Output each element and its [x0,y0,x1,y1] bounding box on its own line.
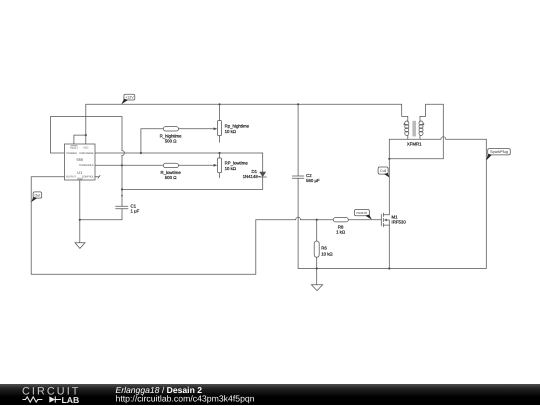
resistor R8 [333,218,348,235]
wire drain riser [388,159,390,215]
svg-text:500 Ω: 500 Ω [165,175,177,180]
svg-text:RESET: RESET [70,147,78,150]
wire output loop [31,177,296,275]
wire R_hightime to wiper [179,128,215,130]
transformer XFMR1 [404,121,425,147]
svg-text:XFMR1: XFMR1 [407,142,422,147]
svg-text:10 kΩ: 10 kΩ [225,129,237,134]
wire RP_lowtime bottom stub [219,173,221,178]
svg-text:10 kΩ: 10 kΩ [321,251,333,256]
svg-text:http://circuitlab.com/c43pm3k4: http://circuitlab.com/c43pm3k4f5pqn [116,393,255,403]
capacitor C1 [116,203,140,213]
svg-text:R6: R6 [321,245,327,250]
wire secondary top path [389,104,443,159]
junction dots [85,134,87,136]
svg-text:DISCHARGE: DISCHARGE [79,152,93,155]
svg-text:1N4148: 1N4148 [243,174,259,179]
wire C2 top lead [297,104,299,176]
op-amp/timer U1 555 [65,144,96,180]
transistor M1 IRF530 [381,213,406,227]
svg-text:U1: U1 [77,170,82,175]
wire Rp_hightime top lead [219,104,221,120]
wire +12V rail [86,104,408,144]
node mos-in flag [354,210,371,220]
wire RP_lowtime top lead [219,153,221,158]
wire xfmr bottom rail [389,139,441,159]
svg-text:LAB: LAB [62,395,80,405]
svg-text:THRESHOLD: THRESHOLD [79,164,94,167]
wire hop over discharge [122,151,124,156]
svg-text:Out: Out [35,193,41,197]
svg-text:TRIGGER: TRIGGER [66,152,77,155]
svg-text:500 Ω: 500 Ω [165,138,177,143]
wire C2 bottom / ground rail / spark riser [298,139,486,268]
resistor R_hightime [160,127,183,144]
wire R_hightime left lead [141,129,163,153]
wire D1 return [122,177,263,189]
svg-text:GND: GND [77,177,83,180]
svg-text:mos-in: mos-in [357,211,368,215]
svg-text:CONTROL: CONTROL [82,176,94,179]
wire 555 GND [79,180,81,243]
node Coil flag [378,167,389,178]
wire hop over secondary riser [441,137,446,139]
wire R8 to gate [348,219,381,221]
ground (R6) [311,285,322,291]
resistor R6 [314,241,333,257]
wire R6 bottom lead [316,257,318,285]
resistor R_lowtime [160,163,181,180]
pin CONTROL stub [95,175,100,178]
capacitor C2 [292,173,320,183]
svg-text:560 μF: 560 μF [306,178,320,183]
potentiometer RP_lowtime [218,158,249,173]
wire xfmr bottom rail right [446,138,487,140]
node SparkPlug flag [486,149,510,161]
svg-text:SparkPlug: SparkPlug [490,149,508,154]
ground (555) [75,243,85,249]
wire to R8 [301,219,334,221]
svg-text:IRF530: IRF530 [392,219,407,224]
wire hop over C2 column [296,217,301,219]
wire primary bottom [407,135,409,139]
svg-text:1 μF: 1 μF [131,208,140,213]
wire secondary bottom [419,135,421,139]
node Out flag [31,192,41,202]
svg-text:OUTPUT: OUTPUT [66,176,76,179]
wire RESET to VCC jumper [74,135,86,144]
svg-text:VCC: VCC [83,147,88,150]
wire threshold row [95,164,163,166]
potentiometer Rp_hightime [218,121,250,136]
wire vertical to C1 [121,155,123,206]
svg-text:10 kΩ: 10 kΩ [225,166,237,171]
wire C1 bottom [80,209,122,220]
diode D1 1N4148 [243,169,267,179]
svg-text:+12V: +12V [125,95,134,99]
svg-text:Coil: Coil [380,169,386,173]
wire trigger-threshold loop [51,117,123,154]
wire R_lowtime to wiper [179,164,215,166]
wire discharge row [95,153,263,172]
wire Rp_hightime bottom stub [219,136,221,143]
svg-text:1 kΩ: 1 kΩ [336,229,346,234]
node +12V flag [121,94,134,104]
svg-text:555: 555 [77,157,84,162]
wire R6 top lead [316,220,318,241]
wire source drop [388,225,390,268]
